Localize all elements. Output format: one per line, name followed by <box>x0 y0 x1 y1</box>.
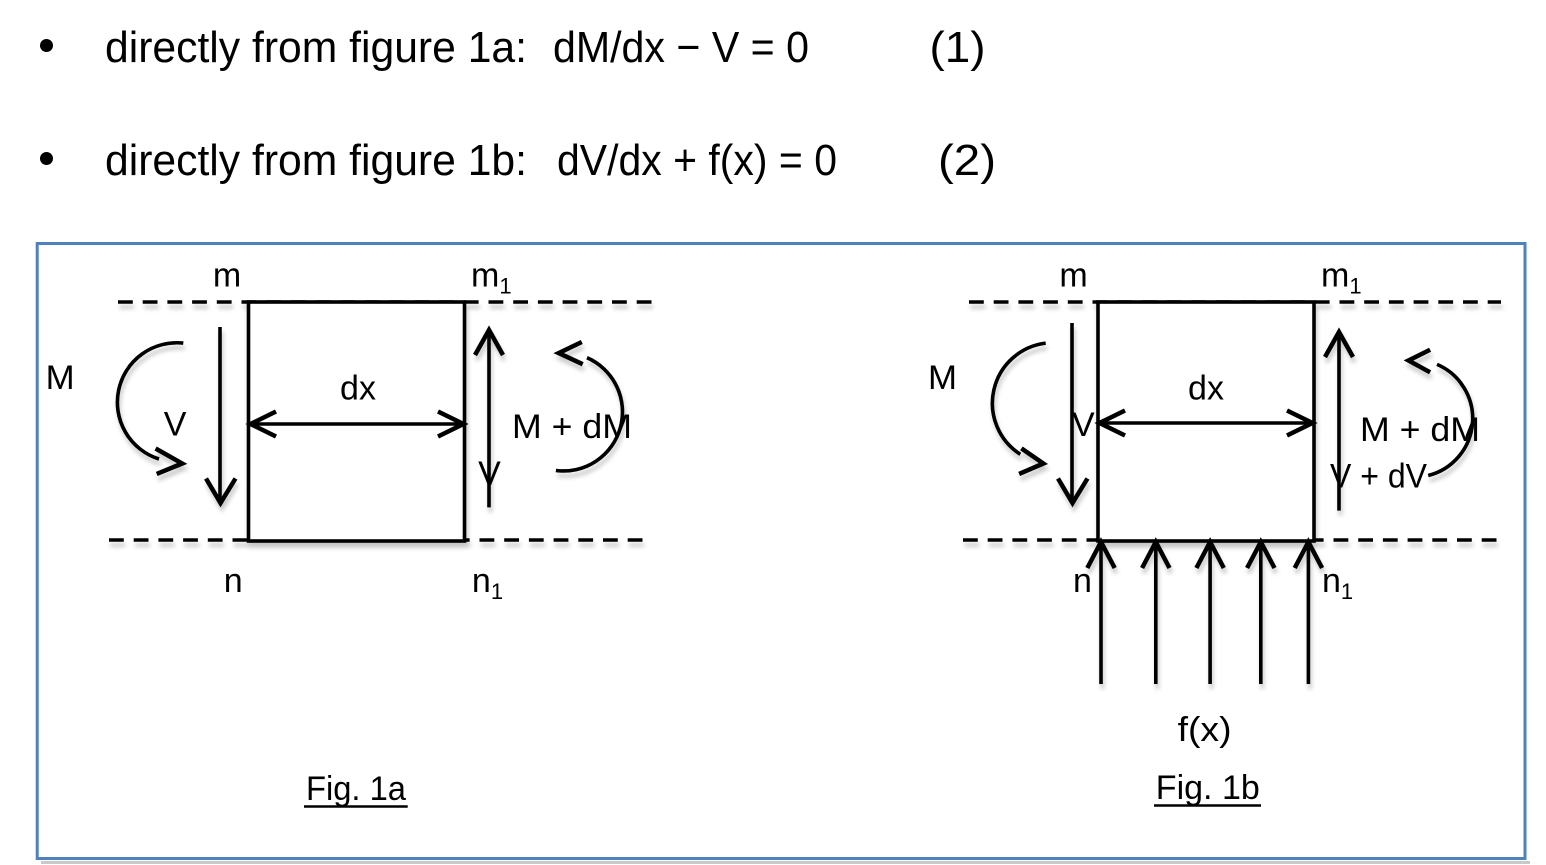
svg-text:dx: dx <box>1188 370 1224 408</box>
fig1b moment M arc left <box>992 343 1045 454</box>
fig1b load arrow 4 <box>1259 547 1263 684</box>
fig1b moment M arc arrowhead <box>1019 448 1043 474</box>
fig1b load arrow 3 <box>1208 547 1212 684</box>
svg-text:dM/dx − V = 0: dM/dx − V = 0 <box>553 23 809 72</box>
fig1a dx left arrowhead <box>251 412 277 437</box>
svg-text:M + dM: M + dM <box>1360 411 1480 449</box>
fig1a dx right arrowhead <box>438 412 464 437</box>
bullet 2 <box>40 152 53 165</box>
fig1b load arrow 1 <box>1099 547 1103 684</box>
fig1b dx dimension arrow <box>1102 421 1310 425</box>
fig1a shear V arrowhead <box>206 479 236 504</box>
fig1b dx left arrowhead <box>1100 411 1126 436</box>
svg-text:V: V <box>478 455 501 493</box>
fig1b shear V arrowhead <box>1058 479 1088 504</box>
fig1a caption underline <box>304 805 408 808</box>
svg-text:f(x): f(x) <box>1178 711 1232 749</box>
svg-text:V: V <box>164 406 187 444</box>
fig1b right shear arrowhead <box>1325 332 1353 357</box>
fig1a shear V arrow shaft (down) <box>218 327 222 499</box>
fig1a dx dimension arrow <box>253 422 461 426</box>
svg-text:Fig. 1b: Fig. 1b <box>1156 769 1260 807</box>
svg-text:directly from figure 1a:: directly from figure 1a: <box>105 23 527 72</box>
svg-text:(2): (2) <box>938 136 996 185</box>
svg-text:dx: dx <box>340 370 376 408</box>
fig1b moment M+dM arc right <box>1428 364 1472 475</box>
fig1b dx right arrowhead <box>1287 411 1313 436</box>
fig1a right shear arrow shaft (up) <box>487 335 491 507</box>
fig1a moment M+dM arc right <box>556 358 623 471</box>
fig1b load arrow 5 <box>1307 547 1311 684</box>
fig1b bottom dashed line nn1 <box>963 538 1501 542</box>
fig1b caption underline <box>1154 804 1261 807</box>
bullet 1 <box>40 39 53 52</box>
fig1b shear V arrow shaft (down) <box>1070 323 1074 499</box>
svg-text:V + dV: V + dV <box>1330 458 1427 496</box>
fig1a bottom dashed line nn1 <box>109 538 647 542</box>
fig1a right shear arrowhead <box>475 330 503 355</box>
fig1b top dashed line mm1 <box>969 300 1501 304</box>
fig1b beam element square <box>1098 302 1314 541</box>
fig1b load arrow 2 <box>1154 547 1158 684</box>
svg-text:m: m <box>1059 257 1087 295</box>
figure box border <box>37 244 1525 859</box>
fig1a beam element square <box>249 302 465 541</box>
svg-text:dV/dx + f(x) = 0: dV/dx + f(x) = 0 <box>557 136 837 185</box>
fig1b moment M+dM arc arrowhead <box>1409 350 1431 373</box>
svg-text:M + dM: M + dM <box>512 408 632 446</box>
svg-text:M: M <box>46 359 75 397</box>
svg-text:M: M <box>928 359 957 397</box>
svg-text:m: m <box>213 257 241 295</box>
fig1a moment M+dM arc arrowhead <box>559 342 583 364</box>
svg-text:n: n <box>224 562 243 600</box>
fig1a moment M arc left <box>117 343 183 459</box>
fig1b right shear arrow shaft (up) <box>1337 337 1341 511</box>
svg-text:(1): (1) <box>930 23 986 72</box>
svg-text:Fig. 1a: Fig. 1a <box>306 770 406 808</box>
svg-text:directly from figure 1b:: directly from figure 1b: <box>105 136 527 185</box>
figure box shadow <box>41 861 1530 864</box>
svg-text:n: n <box>1073 562 1092 600</box>
svg-text:V: V <box>1072 406 1095 444</box>
fig1a top dashed line mm1 <box>118 300 655 304</box>
fig1a moment M arc arrowhead <box>156 449 183 474</box>
